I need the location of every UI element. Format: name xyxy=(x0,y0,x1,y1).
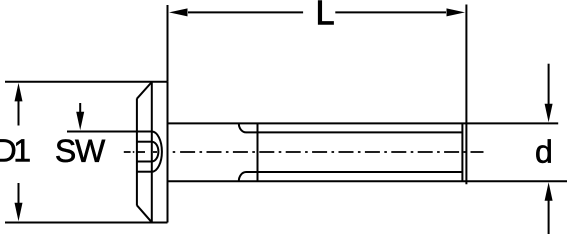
thread root line bottom xyxy=(246,171,462,173)
shaft top outline + d extension xyxy=(168,122,559,124)
end chamfer line xyxy=(461,123,463,181)
socket flat line 3 xyxy=(137,161,152,163)
socket flat line 4 (bottom) xyxy=(137,171,152,173)
centerline left part xyxy=(124,151,180,153)
screw head left face (cylindrical edge) xyxy=(151,82,153,223)
screw head chamfer top xyxy=(137,82,152,99)
dimension arrow SW xyxy=(79,103,81,113)
dimension arrow d bottom xyxy=(548,199,550,234)
extension line L left (head bearing face) xyxy=(167,5,169,82)
socket flat line 2 xyxy=(137,141,152,143)
label SW xyxy=(56,139,105,162)
extension line D1 top / head top edge xyxy=(5,81,168,83)
thread start line xyxy=(257,123,259,181)
extension line L right (screw end) xyxy=(465,5,467,185)
screw head right face xyxy=(167,82,169,223)
dimension arrow D1 top xyxy=(18,100,20,126)
dimension line L xyxy=(188,11,446,13)
thread runout arc bottom xyxy=(239,172,246,181)
shaft bottom outline + d extension xyxy=(168,180,567,182)
extension line SW / socket top flat xyxy=(67,131,152,133)
thread root line top xyxy=(246,131,462,133)
screw head front face xyxy=(136,99,138,206)
dimension arrow d top xyxy=(548,64,550,105)
label D1 xyxy=(0,139,30,161)
label d xyxy=(536,139,550,163)
screw head chamfer bottom xyxy=(137,205,152,222)
centerline right part xyxy=(180,151,483,153)
thread runout arc top xyxy=(239,123,246,132)
extension line D1 bottom / head bottom edge xyxy=(5,222,168,224)
dimension arrow D1 bottom xyxy=(18,183,20,204)
arrowhead L right xyxy=(447,8,466,16)
socket outer arc xyxy=(152,132,162,172)
arrowhead L left xyxy=(169,8,188,16)
socket inner arc xyxy=(152,142,159,162)
label L xyxy=(318,1,333,24)
